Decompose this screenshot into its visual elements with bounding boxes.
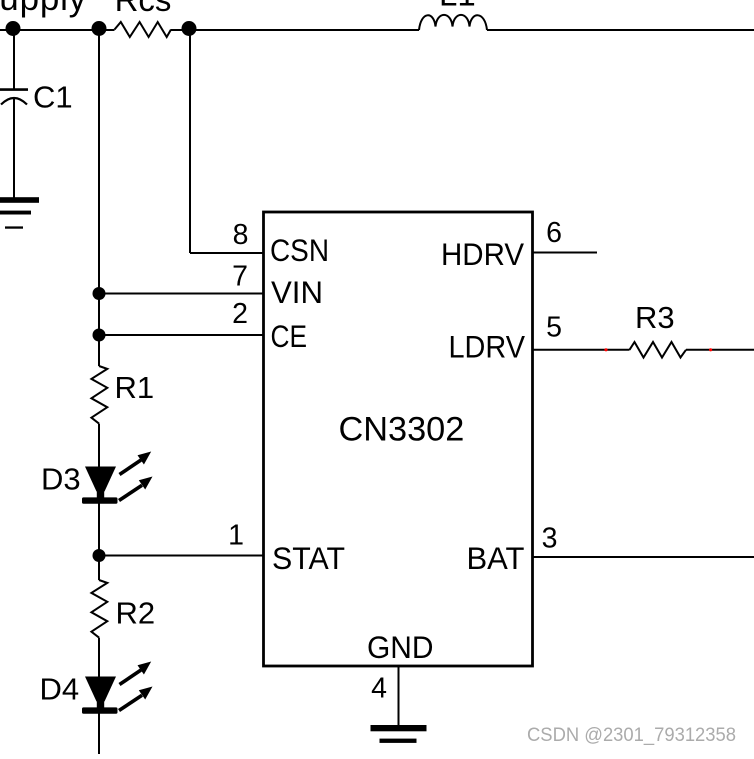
- svg-text:CSN: CSN: [270, 232, 329, 268]
- LED D3: [82, 452, 153, 504]
- svg-text:BAT: BAT: [467, 540, 525, 576]
- wire BAT: [533, 556, 754, 558]
- wire VIN: [99, 293, 264, 295]
- wire C1 branch: [13, 30, 15, 198]
- svg-text:C1: C1: [33, 80, 73, 115]
- wire STAT: [99, 555, 264, 557]
- wire CE: [99, 334, 264, 336]
- node junction Rcs left: [92, 21, 107, 36]
- svg-text:2: 2: [232, 298, 248, 330]
- resistor Rcs: [115, 22, 172, 37]
- inductor L1: [419, 15, 487, 30]
- node junction VIN: [93, 287, 106, 300]
- svg-text:4: 4: [371, 673, 387, 705]
- svg-text:CSDN @2301_79312358: CSDN @2301_79312358: [527, 725, 736, 746]
- svg-text:Rcs: Rcs: [115, 0, 172, 18]
- svg-text:STAT: STAT: [272, 540, 345, 576]
- svg-text:D3: D3: [41, 462, 81, 497]
- svg-text:6: 6: [546, 217, 562, 249]
- ground at C1: [0, 197, 39, 229]
- svg-text:R1: R1: [115, 370, 155, 405]
- node junction top-left: [6, 21, 21, 36]
- svg-text:GND: GND: [367, 629, 434, 665]
- ground at GND pin: [371, 725, 427, 743]
- capacitor C1: [0, 88, 28, 91]
- svg-text:8: 8: [233, 219, 249, 251]
- resistor R2: [91, 580, 107, 638]
- svg-text:3: 3: [542, 523, 558, 555]
- LED D4: [82, 662, 153, 714]
- node junction Rcs right: [182, 21, 197, 36]
- svg-text:7: 7: [232, 261, 248, 293]
- node junction STAT: [93, 549, 106, 562]
- svg-text:D4: D4: [40, 672, 80, 707]
- wire CSN rail: [190, 30, 264, 253]
- wire top rail: [0, 29, 754, 31]
- node junction CE: [93, 329, 106, 342]
- wire GND pin: [398, 666, 400, 725]
- resistor R3: [630, 342, 687, 358]
- svg-text:CE: CE: [271, 318, 308, 354]
- wire LDRV: [533, 349, 754, 351]
- wire HDRV stub: [533, 252, 598, 254]
- red pin dot R3 right: [709, 348, 712, 351]
- svg-text:L1: L1: [439, 0, 476, 13]
- svg-text:1: 1: [228, 520, 244, 552]
- svg-text:HDRV: HDRV: [441, 236, 524, 272]
- svg-text:R3: R3: [635, 300, 675, 335]
- svg-text:5: 5: [546, 312, 562, 344]
- svg-text:R2: R2: [116, 596, 156, 631]
- op-amp U1 CN3302 body: [264, 212, 533, 666]
- resistor R1: [91, 366, 107, 424]
- svg-text:VIN: VIN: [271, 274, 323, 310]
- svg-text:supply: supply: [0, 0, 87, 18]
- svg-text:CN3302: CN3302: [339, 411, 465, 449]
- red pin dot LDRV-R3 left: [604, 348, 607, 351]
- wire left rail: [98, 30, 100, 754]
- svg-text:LDRV: LDRV: [449, 329, 526, 365]
